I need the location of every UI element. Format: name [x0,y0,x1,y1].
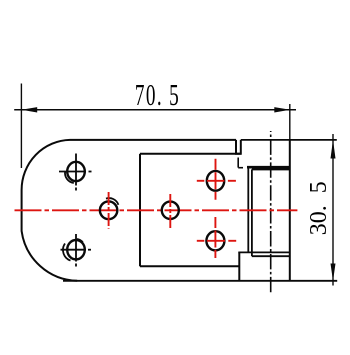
dimension 30.5 line [332,134,334,286]
second leaf left edge [139,154,141,266]
hole H6 bottom-right [206,231,224,250]
crescent arc on hole H1 [65,171,74,183]
knuckle vertical centerline (black dash-dot) [270,131,272,294]
knuckle left inner edge [251,169,253,256]
crescent arcs on hole H2 [63,239,83,261]
dimension label 70.5 [135,77,180,112]
small corner mark between notch and knuckle [238,158,243,168]
hole H3 mid-left [100,201,117,219]
knuckle top outer line [247,166,290,169]
step line right of second leaf bottom [238,252,240,280]
hole H5 top-right [207,171,224,191]
knuckle bottom inner line [252,255,290,257]
knuckle left outer edge [247,167,249,252]
dimension 30.5 top arrow [331,140,336,159]
red vertical centerline of hole H3 [108,192,110,229]
top edge right segment with 30.5 extension line [241,139,337,141]
dimension 70.5 left arrow [21,107,37,112]
hole H4 mid-center [162,202,179,219]
knuckle bottom outer line [238,251,289,253]
crescent arc on hole H3 [106,198,118,205]
dimension 70.5 right extension line [289,104,291,140]
dimension 70.5 line [14,109,296,111]
red vertical centerline of hole H6 [214,217,216,260]
knuckle top inner line [252,168,290,170]
dimension 30.5 bottom arrow [331,264,336,282]
hinge leaf outline (rounded left end, top and bottom edges) [22,140,236,281]
hole H1 top-left [67,162,85,181]
svg-text:70. 5: 70. 5 [135,77,180,112]
notch in top edge [236,140,241,154]
red vertical centerline of hole H4 [169,194,171,228]
right edge of leaf [289,140,291,281]
svg-text:30. 5: 30. 5 [306,181,332,235]
bottom edge with 30.5 extension line [63,280,337,282]
red vertical centerline of hole H5 [215,159,217,204]
black crosshair of hole H2 [61,234,92,267]
dimension 70.5 left extension line [20,84,22,169]
hole H2 bottom-left [67,240,85,259]
black crosshair of hole H1 [59,154,92,191]
red horizontal centerline of hole H6 [197,240,236,242]
dimension 70.5 right arrow [274,107,290,112]
dimension label 30.5 (rotated) [306,181,332,235]
second leaf bottom edge [140,265,239,267]
main horizontal centerline (red dash-dot) [15,209,298,211]
second leaf top edge [140,153,241,155]
red horizontal centerline of hole H5 [197,180,236,182]
